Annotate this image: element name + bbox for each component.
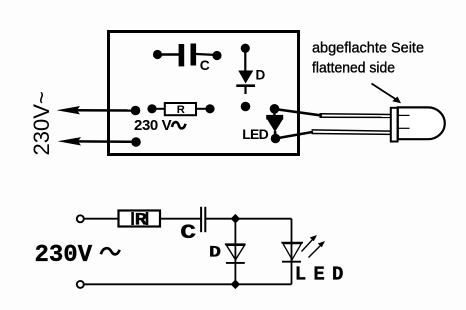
node: bottom junction <box>231 280 241 290</box>
annotation arrow to flattened side <box>372 84 402 104</box>
wire: C to right corner <box>206 218 292 220</box>
LED (layout symbol) <box>266 109 283 139</box>
svg-text:230V: 230V <box>35 242 93 269</box>
svg-text:R: R <box>135 210 148 230</box>
LED physical: internal electrodes <box>398 114 410 116</box>
resistor R (schematic) <box>119 211 161 227</box>
arrow to 230V (upper) <box>57 106 136 114</box>
pad: bottom-left (230V feed 2) <box>131 137 141 147</box>
svg-text:230V~: 230V~ <box>29 91 54 155</box>
wire: bottom rail <box>84 283 292 285</box>
svg-text:flattened side: flattened side <box>312 60 395 77</box>
pad: mid-left (230V feed 1) <box>131 106 141 116</box>
capacitor C (layout) <box>158 44 218 67</box>
LED physical: flange <box>391 108 398 142</box>
terminal: top left <box>77 215 84 222</box>
node: top junction <box>231 214 241 224</box>
LED light arrow 2 <box>309 241 326 258</box>
pad: capacitor right <box>212 51 221 60</box>
arrow to 230V (lower) <box>58 137 137 145</box>
pad: LED anode top <box>270 104 280 114</box>
svg-text:R: R <box>177 104 185 116</box>
pad: diode bottom <box>241 102 251 112</box>
pad: capacitor left <box>153 50 162 59</box>
svg-text:C: C <box>200 58 210 73</box>
svg-text:D: D <box>209 244 221 262</box>
wire: terminal to R <box>84 218 119 220</box>
capacitor C (schematic) <box>201 207 205 232</box>
svg-text:abgeflachte Seite: abgeflachte Seite <box>312 40 424 57</box>
svg-text:D: D <box>256 68 266 83</box>
sine symbol (layout) <box>172 122 186 128</box>
pad: diode top <box>241 44 250 53</box>
svg-text:LED: LED <box>295 263 351 285</box>
pad: resistor right <box>205 104 214 113</box>
diode D (schematic) <box>225 244 246 263</box>
wire: junction down through D <box>234 219 236 285</box>
LED physical: bottom lead wire <box>276 130 392 139</box>
svg-text:230 V: 230 V <box>134 117 172 134</box>
pad: LED cathode bottom <box>271 134 281 144</box>
pad: resistor left <box>147 104 156 113</box>
diode D (layout) <box>236 48 255 94</box>
PCB board outline <box>109 32 299 155</box>
LED physical: top lead wire <box>275 109 392 117</box>
wire: right branch vertical <box>291 219 293 285</box>
LED (schematic) <box>281 243 303 262</box>
LED light arrow 1 <box>302 235 318 252</box>
resistor R (layout) <box>152 103 210 115</box>
wire: R to C <box>160 218 201 220</box>
svg-text:LED: LED <box>242 126 268 142</box>
LED physical: dome body <box>398 107 445 139</box>
svg-text:C: C <box>180 223 196 245</box>
terminal: bottom left <box>77 281 84 288</box>
tilde of 230V label (schematic) <box>101 248 120 254</box>
